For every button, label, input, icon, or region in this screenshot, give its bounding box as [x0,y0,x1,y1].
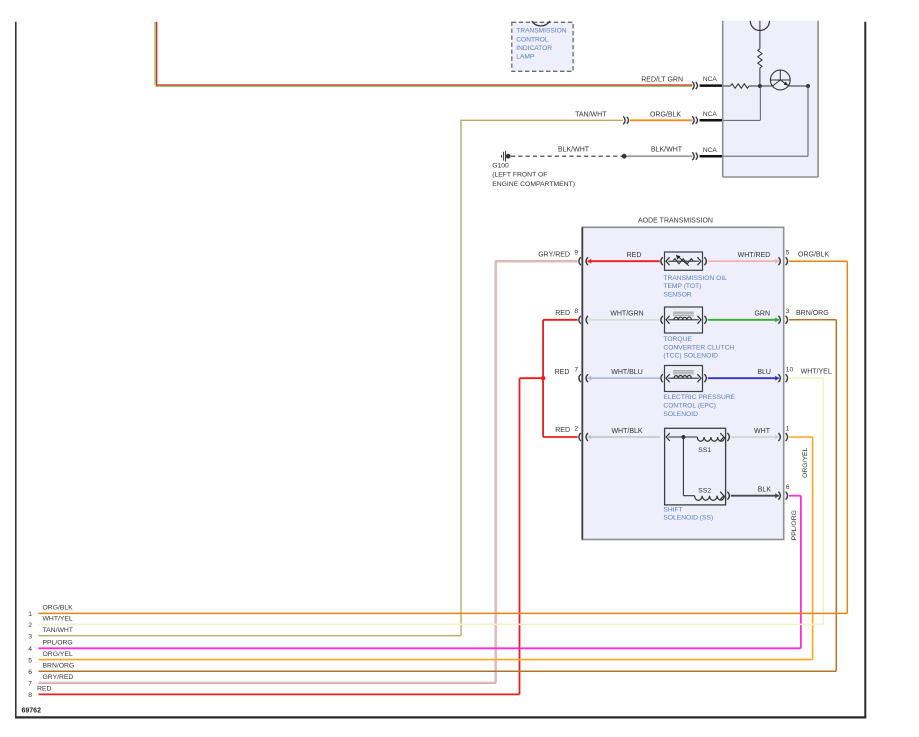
svg-text:SS2: SS2 [698,488,711,495]
svg-text:BLU: BLU [757,369,771,376]
svg-text:5: 5 [786,250,790,257]
svg-text:4: 4 [28,646,32,653]
svg-text:8: 8 [28,692,32,699]
svg-text:ORG/YEL: ORG/YEL [43,651,73,658]
svg-text:1: 1 [786,425,790,432]
svg-text:WHT: WHT [754,428,771,435]
svg-text:PPL/ORG: PPL/ORG [43,640,73,647]
svg-text:SENSOR: SENSOR [663,292,691,299]
svg-text:SOLENOID (SS): SOLENOID (SS) [663,515,713,522]
svg-text:WHT/RED: WHT/RED [738,252,771,259]
svg-text:3: 3 [786,308,790,315]
svg-text:69762: 69762 [22,707,42,714]
svg-text:BLK/WHT: BLK/WHT [651,147,683,154]
svg-text:ELECTRIC PRESSURE: ELECTRIC PRESSURE [663,394,735,401]
svg-text:7: 7 [28,681,32,688]
svg-text:GRY/RED: GRY/RED [43,674,74,681]
svg-text:CONTROL: CONTROL [516,36,549,43]
svg-text:LAMP: LAMP [516,54,535,61]
svg-text:ENGINE COMPARTMENT): ENGINE COMPARTMENT) [492,181,575,188]
svg-text:ORG/YEL: ORG/YEL [802,447,809,477]
svg-text:8: 8 [574,308,578,315]
svg-text:PPL/ORG: PPL/ORG [791,510,798,540]
svg-text:TAN/WHT: TAN/WHT [43,627,73,634]
svg-text:RED: RED [555,369,570,376]
svg-text:CONVERTER CLUTCH: CONVERTER CLUTCH [663,344,734,351]
svg-text:WHT/BLU: WHT/BLU [611,369,643,376]
svg-text:6: 6 [786,484,790,491]
svg-text:(TCC) SOLENOID: (TCC) SOLENOID [663,353,718,360]
svg-text:GRY/RED: GRY/RED [538,251,570,258]
svg-text:RED: RED [555,310,570,317]
svg-text:BLK/WHT: BLK/WHT [558,147,590,154]
svg-text:2: 2 [28,622,32,629]
svg-text:7: 7 [574,367,578,374]
svg-text:5: 5 [28,657,32,664]
svg-text:SHIFT: SHIFT [663,506,682,513]
svg-text:RED: RED [37,686,51,693]
svg-text:2: 2 [574,425,578,432]
svg-text:BRN/ORG: BRN/ORG [43,663,75,670]
svg-text:10: 10 [786,367,794,374]
svg-text:TRANSMISSION OIL: TRANSMISSION OIL [663,275,727,282]
svg-text:ORG/BLK: ORG/BLK [43,605,74,612]
svg-text:NCA: NCA [703,111,718,118]
svg-text:SOLENOID: SOLENOID [663,411,698,418]
svg-text:BRN/ORG: BRN/ORG [796,310,829,317]
svg-text:AODE TRANSMISSION: AODE TRANSMISSION [638,217,713,224]
svg-text:CONTROL (EPC): CONTROL (EPC) [663,403,716,410]
svg-text:WHT/YEL: WHT/YEL [801,369,832,376]
svg-text:BLK: BLK [758,487,772,494]
svg-text:RED: RED [627,252,642,259]
svg-text:GRN: GRN [754,311,770,318]
svg-text:WHT/YEL: WHT/YEL [43,616,73,623]
svg-text:3: 3 [28,634,32,641]
svg-text:TORQUE: TORQUE [663,336,692,343]
svg-text:G100: G100 [492,163,509,170]
svg-text:9: 9 [574,250,578,257]
svg-text:TRANSMISSION: TRANSMISSION [516,28,566,35]
svg-text:INDICATOR: INDICATOR [516,45,552,52]
svg-text:6: 6 [28,669,32,676]
svg-text:1: 1 [28,611,32,618]
svg-text:TAN/WHT: TAN/WHT [575,111,607,118]
svg-text:ORG/BLK: ORG/BLK [798,251,829,258]
svg-text:(LEFT FRONT OF: (LEFT FRONT OF [492,172,547,179]
svg-text:WHT/GRN: WHT/GRN [610,311,643,318]
svg-text:ORG/BLK: ORG/BLK [650,111,681,118]
svg-text:TEMP (TOT): TEMP (TOT) [663,283,701,290]
svg-text:NCA: NCA [703,76,718,83]
svg-text:RED/LT GRN: RED/LT GRN [641,77,683,84]
svg-text:NCA: NCA [703,147,718,154]
svg-text:SS1: SS1 [698,447,711,454]
svg-text:WHT/BLK: WHT/BLK [611,428,642,435]
svg-text:RED: RED [555,427,570,434]
